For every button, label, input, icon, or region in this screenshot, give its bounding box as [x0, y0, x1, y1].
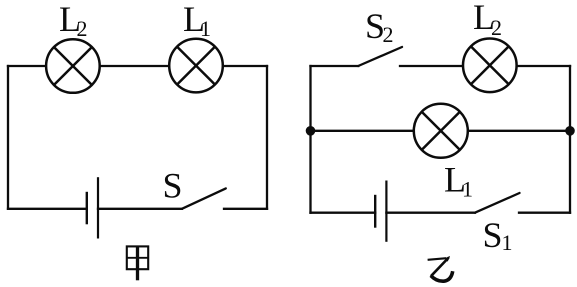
wire: right middle branch [311, 130, 571, 132]
junction node (left) [306, 126, 316, 136]
lamp L1 (left circuit) [169, 39, 223, 93]
label 甲 [127, 246, 148, 281]
wire: left circuit top [8, 65, 267, 67]
svg-text:1: 1 [502, 230, 513, 255]
switch S2 (right circuit, top branch) [358, 47, 402, 66]
battery (left circuit) [87, 177, 98, 238]
svg-text:S: S [163, 166, 183, 206]
svg-text:2: 2 [491, 15, 502, 40]
wire: left circuit switch contact to corner [224, 208, 267, 210]
battery (right circuit) [375, 181, 386, 242]
wire: right top branch left [311, 65, 359, 67]
lamp L2 (left circuit) [46, 39, 100, 93]
wire: left circuit battery to switch [98, 208, 182, 210]
switch S1 (right circuit) [475, 193, 520, 213]
wire: right circuit left side [309, 66, 311, 213]
wire: right battery to switch S1 [386, 212, 475, 214]
switch S (left circuit) [182, 188, 226, 208]
svg-text:1: 1 [462, 177, 473, 202]
wire: right bottom-left to battery [311, 212, 376, 214]
svg-text:S: S [483, 215, 503, 255]
junction node (right) [565, 126, 575, 136]
svg-text:1: 1 [200, 16, 211, 41]
svg-text:2: 2 [383, 22, 394, 47]
wire: left circuit bottom-left to battery [8, 208, 87, 210]
wire: left circuit right side [266, 66, 268, 209]
svg-text:2: 2 [77, 16, 88, 41]
wire: right top branch contact to right corner [400, 65, 570, 67]
wire: right circuit right side [569, 66, 571, 213]
label 乙 [428, 256, 453, 281]
wire: right switch contact to corner [519, 212, 570, 214]
wire: left circuit left side [7, 66, 9, 209]
lamp L1 (right circuit, middle branch) [414, 104, 468, 158]
lamp L2 (right circuit, top branch) [463, 39, 517, 93]
